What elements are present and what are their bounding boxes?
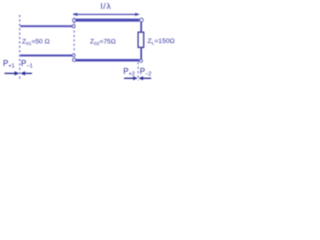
background: [0, 0, 180, 91]
node C: load reference plane (dashed): [137, 62, 139, 80]
node: line-1 bottom terminal: [72, 54, 75, 57]
svg-text:l/λ: l/λ: [101, 1, 112, 11]
arrow: P+1 incident wave: [5, 71, 20, 75]
node: line-1 top terminal: [72, 25, 75, 28]
arrow: P+2 incident wave: [124, 76, 138, 80]
arrow: P-1 reflected wave: [20, 71, 32, 75]
wire: load bottom lead: [140, 47, 142, 59]
wire: line-2 bottom conductor: [76, 59, 140, 62]
wire: line-1 bottom conductor: [20, 55, 72, 57]
node: load bottom junction: [140, 59, 143, 62]
node: line-2 top-right terminal: [140, 18, 144, 22]
node: line-2 top-left terminal: [73, 19, 76, 22]
node: line-2 bottom-left terminal: [73, 58, 76, 61]
node B: junction reference plane (dashed): [73, 13, 75, 53]
arrow: P-2 reflected wave: [139, 76, 152, 80]
resistor ZL: [138, 32, 143, 47]
dimension: length arrow l/lambda: [73, 13, 140, 16]
wire: line-1 top conductor: [20, 25, 72, 27]
wire: line-2 top conductor: [76, 19, 140, 22]
wire: load top lead: [140, 22, 142, 33]
node A: input reference plane (dashed): [19, 15, 21, 79]
